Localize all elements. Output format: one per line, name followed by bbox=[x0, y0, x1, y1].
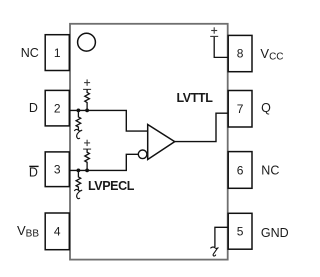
overline of D-bar bbox=[29, 165, 38, 167]
GND continuation squiggle bbox=[210, 247, 218, 256]
resistor RDB-up bbox=[85, 149, 90, 170]
VTT terminal bar + plus (D upper) bbox=[83, 79, 91, 89]
inverting input bubble bbox=[138, 150, 147, 159]
wire GND from pin 5 down bbox=[215, 227, 228, 247]
pin 3 box bbox=[45, 152, 69, 187]
junction node DB1 bbox=[77, 169, 81, 173]
VTT terminal bar + plus (D-bar upper) bbox=[83, 140, 91, 149]
resistor RD-up bbox=[85, 89, 90, 110]
svg-text:1: 1 bbox=[54, 46, 61, 60]
junction node D2 bbox=[85, 109, 89, 113]
pin 6 box bbox=[228, 152, 252, 189]
svg-text:7: 7 bbox=[237, 102, 244, 116]
continuation squiggle under RD-down bbox=[74, 129, 82, 138]
svg-text:Q: Q bbox=[261, 101, 271, 115]
pin 4 box bbox=[45, 213, 69, 250]
svg-text:4: 4 bbox=[54, 225, 61, 239]
pin 8 box bbox=[228, 35, 252, 71]
svg-text:5: 5 bbox=[237, 225, 244, 239]
op-amp buffer triangle bbox=[148, 125, 175, 160]
wire Q output from buffer to pin 7 bbox=[175, 113, 228, 141]
svg-text:NC: NC bbox=[261, 163, 279, 177]
resistor RD-down bbox=[76, 110, 81, 130]
svg-text:LVPECL: LVPECL bbox=[88, 179, 135, 193]
svg-text:2: 2 bbox=[54, 101, 61, 115]
continuation squiggle under RDB-down bbox=[74, 189, 82, 198]
pin 2 box bbox=[45, 90, 69, 126]
resistor RDB-down bbox=[76, 170, 81, 190]
svg-text:3: 3 bbox=[54, 163, 61, 177]
wire VCC from terminal to pin 8 bbox=[214, 36, 228, 57]
svg-text:GND: GND bbox=[261, 226, 289, 240]
pin 1 box bbox=[45, 35, 69, 71]
svg-text:VBB: VBB bbox=[17, 223, 39, 240]
svg-text:D: D bbox=[29, 165, 38, 179]
svg-text:D: D bbox=[29, 101, 38, 115]
pin 7 box bbox=[228, 91, 252, 128]
svg-text:8: 8 bbox=[237, 47, 244, 61]
svg-text:6: 6 bbox=[237, 163, 244, 177]
pin-1 indicator circle bbox=[78, 33, 96, 51]
IC body outline bbox=[70, 24, 228, 260]
svg-text:NC: NC bbox=[21, 46, 39, 60]
junction node D1 bbox=[77, 109, 81, 113]
svg-text:VCC: VCC bbox=[260, 46, 283, 63]
svg-text:LVTTL: LVTTL bbox=[177, 91, 214, 105]
pin 5 box bbox=[228, 213, 252, 249]
VCC terminal plus + bar bbox=[210, 27, 218, 36]
wire D-bar input from pin 3 to bubble bbox=[69, 154, 138, 170]
junction node DB2 bbox=[85, 169, 89, 173]
wire D input from pin 2 to buffer bbox=[69, 110, 147, 131]
